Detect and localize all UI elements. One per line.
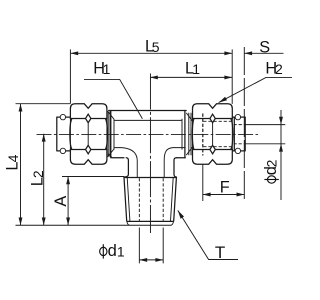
hidden bore bbox=[139, 178, 163, 221]
svg-text:2: 2 bbox=[264, 159, 280, 167]
body thread at right nut bbox=[189, 113, 191, 155]
H2 label and leader bbox=[219, 60, 292, 103]
male taper thread bbox=[124, 177, 176, 225]
phi-d1 dimension bbox=[100, 228, 164, 264]
L4 dimension bbox=[3, 104, 171, 226]
A dimension bbox=[52, 177, 124, 226]
H1 label and leader bbox=[84, 60, 142, 119]
svg-text:T: T bbox=[215, 243, 225, 262]
svg-text:2: 2 bbox=[275, 61, 283, 77]
svg-text:4: 4 bbox=[5, 154, 21, 162]
phi-d2 dimension bbox=[245, 110, 285, 200]
svg-text:5: 5 bbox=[152, 39, 160, 55]
branch neck bbox=[124, 158, 176, 177]
vertical centerline bbox=[149, 74, 151, 234]
nut H1 (left) bbox=[70, 104, 108, 164]
body block bbox=[109, 111, 187, 178]
hidden lines inside right nut bbox=[202, 114, 204, 156]
L1 dimension bbox=[150, 60, 232, 80]
svg-text:S: S bbox=[259, 38, 270, 56]
body thread at left nut bbox=[108, 111, 110, 157]
svg-text:A: A bbox=[52, 196, 70, 207]
lower chamfer lines with blend fillets into branch bbox=[114, 148, 137, 178]
svg-text:1: 1 bbox=[117, 243, 125, 259]
svg-text:1: 1 bbox=[192, 61, 200, 77]
thread root thin lines bbox=[127, 177, 173, 221]
horizontal centerline bbox=[37, 133, 260, 135]
nut H2 (right) bbox=[192, 104, 232, 164]
F dimension bbox=[203, 114, 245, 202]
S dimension bbox=[244, 38, 283, 56]
L5 dimension bbox=[70, 37, 232, 104]
svg-text:d: d bbox=[108, 242, 117, 260]
svg-text:1: 1 bbox=[103, 61, 111, 77]
svg-text:F: F bbox=[220, 179, 230, 197]
L2 dimension bbox=[29, 134, 47, 225]
gauge line (long dash) bbox=[243, 47, 245, 202]
T label and leader bbox=[178, 210, 238, 261]
hex corner ridge and diamonds bbox=[87, 122, 89, 145]
right collar bbox=[233, 114, 246, 153]
left tube port bbox=[57, 114, 71, 153]
svg-text:2: 2 bbox=[30, 170, 46, 178]
